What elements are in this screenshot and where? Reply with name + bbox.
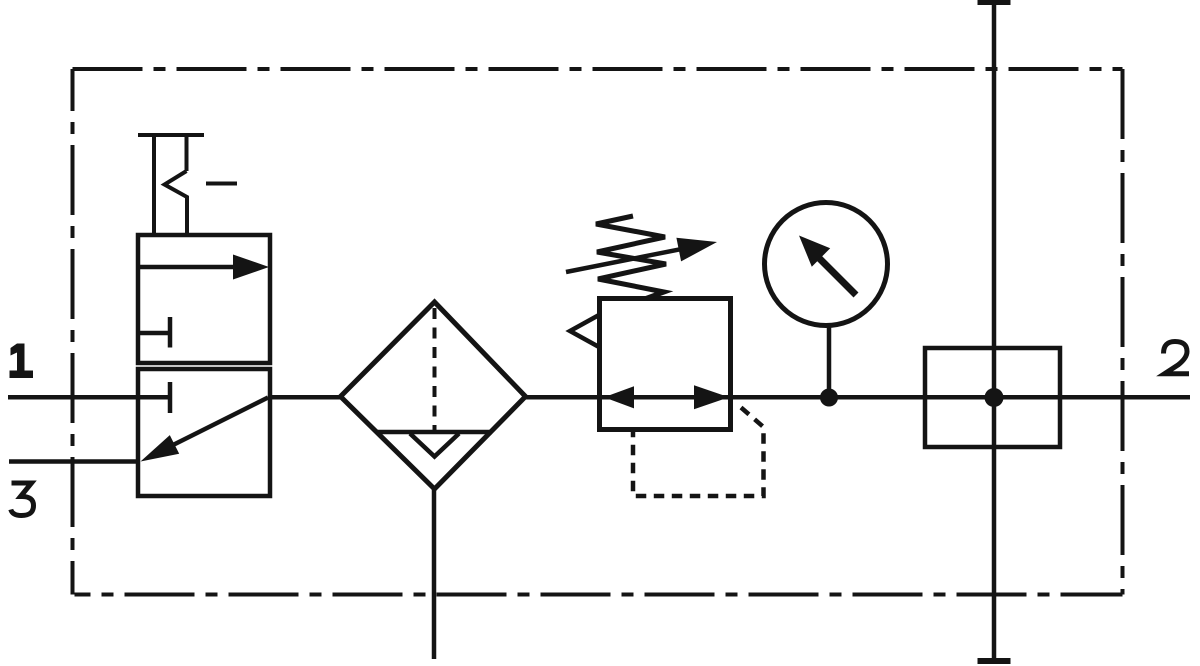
shut-off valve V1: rest position box (1 blocked, 2 to 3): [138, 369, 270, 496]
shut-off valve V1: actuated position box (flow 1 to 2): [138, 235, 270, 363]
wire: port 1 inlet line: [8, 395, 168, 400]
port label 1: [10, 344, 34, 379]
filter with water separator F1: [341, 302, 526, 489]
pressure regulator R1: body: [600, 299, 731, 430]
port label 3: [11, 483, 34, 516]
pressure gauge G1: [765, 203, 888, 398]
outlet block (distributor): [925, 348, 1060, 447]
wire: port 3 exhaust line: [9, 459, 140, 464]
pressure regulator R1: adjustment spring: [596, 216, 666, 299]
wire: valve outlet to filter: [270, 395, 342, 400]
wire: filter condensate drain: [432, 489, 437, 659]
pressure regulator R1: adjustment arrow: [566, 238, 717, 272]
pressure regulator R1: pilot spring (left chevron): [570, 315, 599, 347]
junction: gauge tap node: [820, 389, 838, 407]
shut-off valve V1: manual knob with detent actuator: [138, 133, 237, 235]
junction: outlet block node: [985, 388, 1004, 407]
pressure regulator R1: pilot feedback line (dashed): [633, 408, 764, 497]
wire: vertical distribution line with end bars: [978, 2, 1011, 662]
enclosure frame (dash-dot service unit boundary): [73, 69, 1123, 595]
port label 2: [1164, 342, 1190, 374]
wire: main pressure line (filter to port 2): [526, 395, 1191, 400]
